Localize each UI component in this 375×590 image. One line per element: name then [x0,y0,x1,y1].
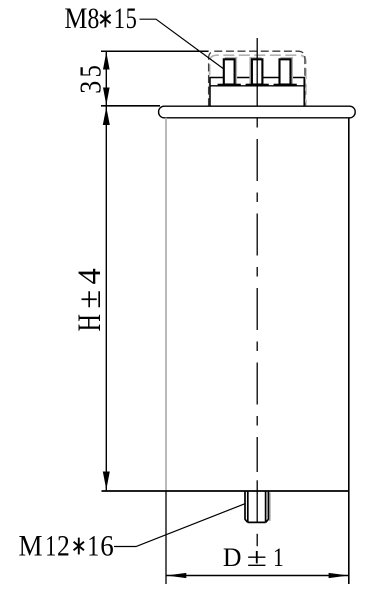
terminal block [210,78,304,107]
nut bar 2 [246,84,269,86]
arrow D right [329,573,349,578]
leader M12*16 [114,504,245,547]
can body right side [348,118,350,584]
label M12*16 [19,530,114,563]
stud shadow 2 [250,58,261,84]
arrow 35 down [103,88,110,106]
bottom stud shadow [269,493,271,522]
stud shadow 3 [281,58,292,84]
bottom stud (M12) [245,491,268,522]
centerline axis [256,38,258,546]
svg-text:M1216: M1216 [19,530,114,563]
arrow D left [166,573,186,578]
nut bar 3 [274,84,297,86]
dimension 35: top extension line [101,50,209,52]
left extension line for D [165,491,167,584]
terminal cover (dark dashed rounded outline) [209,51,305,106]
terminal cover shadow (gray dashed rounded outline) [210,55,306,106]
leader M8*15 [140,19,224,68]
arrow H down [103,472,110,490]
can lid [159,106,356,118]
svg-text:H±4: H±4 [72,268,108,331]
arrow 35 up [103,52,110,70]
dimension line vertical (35 and H) [105,51,107,490]
stud shadow 1 [226,58,237,84]
terminal stud 2 (M8) [252,59,263,84]
terminal block inner line [210,85,304,87]
label M8*15 [64,2,136,35]
can bottom edge with extension [102,490,349,492]
nut bar 1 [218,84,241,86]
dimension 35: bottom extension line [101,105,160,107]
svg-text:D±1: D±1 [223,543,284,572]
arrow H up [103,107,110,125]
can body left side (gray) [165,118,167,491]
dimension line D [166,575,348,577]
terminal stud 3 (M8) [280,59,291,84]
terminal stud 1 (M8) [224,59,235,84]
